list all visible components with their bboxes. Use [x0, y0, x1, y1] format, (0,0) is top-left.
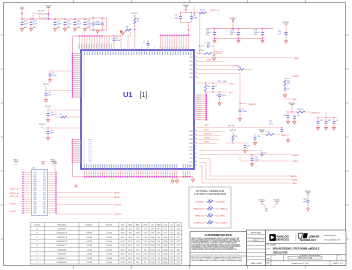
- svg-text:VOUT2_R: VOUT2_R: [214, 51, 224, 53]
- svg-text:VIN: VIN: [43, 195, 46, 197]
- svg-text:VIN: VIN: [43, 179, 46, 181]
- svg-text:OPT: OPT: [208, 217, 211, 219]
- svg-text:2200p: 2200p: [150, 262, 155, 264]
- svg-text:VDD25_R: VDD25_R: [311, 112, 321, 114]
- svg-text:8.06k: 8.06k: [193, 18, 197, 20]
- svg-text:470uF: 470uF: [206, 32, 212, 34]
- svg-text:PGOOD2: PGOOD2: [204, 134, 212, 136]
- svg-text:C14: C14: [247, 145, 250, 147]
- svg-text:VOUT1: VOUT1: [86, 225, 92, 227]
- svg-text:OPT: OPT: [177, 258, 180, 260]
- svg-text:DEVICES: DEVICES: [276, 238, 289, 242]
- svg-text:VOS: VOS: [189, 158, 192, 160]
- svg-text:VOS: VOS: [189, 154, 192, 156]
- svg-text:RUN1: RUN1: [114, 193, 121, 195]
- svg-text:41: 41: [195, 153, 197, 155]
- svg-text:LTM4643EY#B: LTM4643EY#B: [56, 241, 67, 243]
- svg-text:RUN: RUN: [292, 99, 297, 101]
- svg-text:VFB2: VFB2: [293, 161, 299, 163]
- svg-text:35: 35: [195, 138, 197, 140]
- svg-text:E: E: [37, 245, 38, 247]
- svg-text:44: 44: [195, 164, 197, 166]
- svg-text:SIZE: SIZE: [266, 255, 269, 257]
- svg-text:OPT: OPT: [170, 258, 173, 260]
- svg-text:VIN: VIN: [43, 201, 46, 203]
- svg-text:COMP2(1): COMP2(1): [194, 222, 204, 224]
- svg-text:REGULATOR: REGULATOR: [273, 251, 287, 254]
- svg-text:VIN: VIN: [43, 188, 46, 190]
- svg-text:OPT: OPT: [177, 241, 180, 243]
- svg-text:[1]: [1]: [140, 92, 148, 99]
- svg-text:U1 (%): U1 (%): [34, 225, 40, 227]
- svg-text:26: 26: [195, 76, 197, 78]
- svg-text:OPT: OPT: [170, 241, 173, 243]
- svg-text:VOUT1: VOUT1: [114, 205, 122, 207]
- svg-text:PCB DES.: PCB DES.: [247, 236, 253, 238]
- svg-text:LINEAR: LINEAR: [309, 234, 321, 238]
- svg-text:1000p: 1000p: [163, 254, 168, 256]
- svg-text:R13: R13: [328, 120, 331, 122]
- svg-text:R25: R25: [265, 208, 268, 210]
- svg-text:R15: R15: [136, 225, 139, 227]
- svg-text:VFB1: VFB1: [294, 58, 300, 60]
- svg-text:OPT: OPT: [170, 245, 173, 247]
- svg-text:1000p: 1000p: [163, 241, 168, 243]
- svg-text:1000p: 1000p: [150, 241, 155, 243]
- svg-text:COMP2: COMP2: [204, 138, 210, 140]
- svg-text:2200p: 2200p: [150, 249, 155, 251]
- svg-text:VIN: VIN: [43, 181, 46, 183]
- svg-text:RUN2_R: RUN2_R: [281, 135, 289, 137]
- svg-text:C17: C17: [216, 95, 219, 97]
- svg-text:+5VR: +5VR: [204, 125, 209, 127]
- svg-text:TITLE:: TITLE:: [267, 248, 272, 250]
- svg-text:B: B: [37, 233, 38, 235]
- svg-text:34: 34: [195, 134, 197, 136]
- svg-text:R16: R16: [128, 225, 131, 227]
- svg-text:INTVCC: INTVCC: [39, 124, 46, 126]
- svg-text:42: 42: [195, 157, 197, 159]
- svg-text:OPT: OPT: [177, 254, 180, 256]
- svg-text:OPT: OPT: [177, 237, 180, 239]
- svg-text:RUN2: RUN2: [114, 197, 121, 199]
- svg-text:VOS: VOS: [189, 150, 192, 152]
- svg-text:100uF: 100uF: [254, 32, 260, 34]
- svg-text:R20 10: R20 10: [199, 50, 204, 52]
- svg-text:INTVCC: INTVCC: [132, 13, 139, 15]
- svg-text:VIN: VIN: [43, 190, 46, 192]
- svg-text:24: 24: [195, 68, 197, 70]
- svg-text:LTM4643EY#B: LTM4643EY#B: [56, 237, 67, 239]
- svg-text:R11: R11: [207, 86, 210, 88]
- svg-text:VIN: VIN: [43, 213, 46, 215]
- svg-text:VIN: VIN: [43, 206, 46, 208]
- svg-text:5: 5: [84, 162, 85, 164]
- svg-text:C26: C26: [297, 115, 300, 117]
- svg-text:1000p: 1000p: [150, 245, 155, 247]
- svg-text:C1 100p: C1 100p: [205, 43, 211, 45]
- svg-text:100k: 100k: [223, 81, 227, 83]
- svg-text:37: 37: [195, 146, 197, 148]
- svg-text:VFB: VFB: [189, 69, 192, 71]
- svg-text:C11: C11: [320, 120, 323, 122]
- svg-text:OPT: OPT: [265, 211, 268, 213]
- svg-text:TECHNOLOGY: TECHNOLOGY: [300, 240, 317, 242]
- svg-text:R7: R7: [121, 225, 123, 227]
- svg-text:RUN2: RUN2: [204, 142, 209, 144]
- svg-text:OPT: OPT: [208, 203, 211, 205]
- svg-text:C15: C15: [177, 225, 180, 227]
- svg-text:VDD1+_A: VDD1+_A: [10, 187, 20, 190]
- svg-text:C12: C12: [163, 225, 166, 227]
- svg-text:F: F: [37, 249, 38, 251]
- svg-text:22: 22: [195, 60, 197, 62]
- svg-text:(1) COMP1: (1) COMP1: [217, 222, 228, 224]
- svg-text:15k: 15k: [287, 83, 290, 85]
- svg-text:100uF: 100uF: [230, 32, 236, 34]
- svg-text:LTM4643EY 1: LTM4643EY 1: [57, 245, 67, 247]
- svg-text:25: 25: [195, 72, 197, 74]
- svg-text:43: 43: [195, 161, 197, 163]
- svg-text:+5VR: +5VR: [229, 83, 234, 85]
- svg-text:VFB: VFB: [189, 61, 192, 63]
- svg-text:+5VR: +5VR: [206, 59, 211, 61]
- svg-text:(1) VFB1: (1) VFB1: [217, 215, 226, 217]
- svg-text:COMP1: COMP1: [292, 76, 300, 78]
- svg-text:VOSN1: VOSN1: [292, 155, 300, 157]
- svg-text:R28: R28: [209, 221, 212, 223]
- svg-text:22p: 22p: [177, 233, 180, 235]
- svg-text:C25: C25: [283, 115, 286, 117]
- svg-text:1000p: 1000p: [163, 245, 168, 247]
- svg-text:OPT: OPT: [170, 237, 173, 239]
- svg-text:VIN: VIN: [43, 208, 46, 210]
- svg-text:R15 OPT: R15 OPT: [228, 125, 235, 127]
- svg-text:47p: 47p: [170, 233, 173, 235]
- svg-text:R22 10: R22 10: [298, 109, 304, 111]
- svg-text:VFB: VFB: [189, 65, 192, 67]
- svg-text:48p: 48p: [177, 249, 180, 251]
- svg-text:REV: REV: [338, 255, 341, 257]
- svg-text:RUN2(1): RUN2(1): [195, 201, 204, 203]
- svg-text:R18: R18: [157, 225, 160, 227]
- svg-text:VFB1: VFB1: [292, 183, 298, 185]
- svg-text:VIN: VIN: [43, 177, 46, 179]
- svg-text:2200p: 2200p: [163, 249, 168, 251]
- svg-text:40: 40: [195, 149, 197, 151]
- svg-text:R6: R6: [126, 26, 128, 28]
- svg-text:VIN: VIN: [43, 199, 46, 201]
- svg-text:VOS: VOS: [189, 166, 192, 168]
- svg-text:VIN: VIN: [43, 210, 46, 212]
- svg-text:R12: R12: [218, 81, 221, 83]
- svg-text:VIN: VIN: [43, 183, 46, 185]
- svg-text:3: 3: [84, 97, 85, 99]
- svg-text:OPT: OPT: [170, 262, 173, 264]
- svg-text:36: 36: [195, 142, 197, 144]
- svg-text:LTM4643EY: LTM4643EY: [57, 254, 67, 256]
- svg-text:R5: R5: [60, 114, 62, 116]
- svg-text:VOUT1_R: VOUT1_R: [210, 10, 220, 12]
- svg-text:R27: R27: [209, 214, 212, 216]
- svg-text:VIN: VIN: [43, 172, 46, 174]
- svg-text:VFB2 (1): VFB2 (1): [195, 215, 204, 217]
- svg-text:VDDO_A: VDDO_A: [10, 195, 19, 198]
- svg-text:(1) RUN1: (1) RUN1: [217, 201, 227, 203]
- svg-text:2200p: 2200p: [163, 262, 168, 264]
- svg-text:VIN: VIN: [43, 192, 46, 194]
- svg-text:VFB: VFB: [189, 73, 192, 75]
- svg-text:VIN: VIN: [43, 197, 46, 199]
- svg-text:VOUT2: VOUT2: [10, 211, 18, 213]
- svg-text:C9: C9: [287, 89, 289, 91]
- svg-text:+5VR: +5VR: [204, 130, 209, 132]
- svg-text:INTVCC: INTVCC: [230, 130, 237, 132]
- svg-text:Tuesday, June 27, 2017: Tuesday, June 27, 2017: [291, 263, 309, 265]
- svg-text:23: 23: [195, 64, 197, 66]
- svg-text:LTM4643EY 1: LTM4643EY 1: [57, 258, 67, 260]
- svg-text:1 OUTPUT CONFIGURATION: 1 OUTPUT CONFIGURATION: [194, 193, 227, 196]
- svg-text:22p: 22p: [177, 228, 180, 230]
- svg-text:TRACK2(1): TRACK2(1): [193, 207, 204, 210]
- svg-text:R24: R24: [209, 200, 212, 202]
- svg-text:2k: 2k: [137, 21, 139, 23]
- svg-text:1000p: 1000p: [150, 254, 155, 256]
- svg-text:SHEET 1 OF 1: SHEET 1 OF 1: [333, 263, 343, 265]
- svg-text:INTVCC: INTVCC: [45, 106, 52, 108]
- svg-text:VIN: VIN: [43, 174, 46, 176]
- svg-text:OPT: OPT: [151, 233, 154, 235]
- svg-text:47p: 47p: [170, 249, 173, 251]
- svg-text:LTM4643EY: LTM4643EY: [57, 228, 67, 230]
- svg-text:VFB: VFB: [189, 57, 192, 59]
- svg-text:Phone: (408)432-1900: Phone: (408)432-1900: [324, 239, 340, 241]
- svg-text:GND: GND: [212, 55, 215, 57]
- svg-text:33: 33: [195, 130, 197, 132]
- svg-text:OPT: OPT: [177, 262, 180, 264]
- svg-text:R14: R14: [267, 131, 270, 133]
- svg-text:1000p: 1000p: [163, 237, 168, 239]
- svg-text:VDD2+_A: VDD2+_A: [10, 192, 20, 195]
- svg-text:OPT: OPT: [170, 254, 173, 256]
- svg-text:OPT: OPT: [208, 224, 211, 226]
- svg-text:OPT: OPT: [164, 233, 167, 235]
- svg-text:R4 OPT: R4 OPT: [38, 11, 44, 13]
- svg-text:VOUT2: VOUT2: [114, 214, 122, 216]
- svg-text:IC NO.: IC NO.: [272, 255, 276, 257]
- svg-text:C9: C9: [215, 86, 217, 88]
- svg-text:TRACK1: TRACK1: [248, 103, 257, 106]
- svg-text:R23: R23: [209, 207, 212, 209]
- svg-text:VOUT1: VOUT1: [10, 203, 18, 205]
- svg-text:VIN: VIN: [43, 186, 46, 188]
- svg-text:47p: 47p: [170, 228, 173, 230]
- svg-text:U1: U1: [123, 90, 133, 99]
- svg-text:VOUT2: VOUT2: [106, 225, 112, 227]
- svg-text:HIGH EFFICIENCY, STEP-DOWN, µM: HIGH EFFICIENCY, STEP-DOWN, µMODULE: [273, 249, 320, 251]
- svg-text:VIN: VIN: [43, 204, 46, 206]
- svg-text:C23: C23: [257, 136, 260, 138]
- svg-text:1000p: 1000p: [163, 258, 168, 260]
- svg-text:(1) TRACK1: (1) TRACK1: [217, 207, 229, 210]
- svg-text:C12: C12: [264, 152, 267, 154]
- svg-text:R3: R3: [235, 136, 237, 138]
- svg-text:C8: C8: [336, 120, 338, 122]
- svg-text:R10: R10: [144, 225, 147, 227]
- svg-text:R19 10: R19 10: [200, 10, 205, 12]
- svg-text:CUSTOMER NOTICE: CUSTOMER NOTICE: [205, 233, 232, 237]
- svg-text:C7: C7: [170, 225, 172, 227]
- svg-text:VFB: VFB: [189, 77, 192, 79]
- svg-text:VOSN2: VOSN2: [291, 180, 299, 182]
- svg-text:www.analog.com: www.analog.com: [324, 235, 337, 237]
- svg-text:OPT: OPT: [144, 233, 147, 235]
- svg-text:21: 21: [195, 56, 197, 58]
- svg-text:OPT: OPT: [177, 245, 180, 247]
- svg-text:VOS: VOS: [189, 162, 192, 164]
- svg-text:APPROVALS: APPROVALS: [251, 231, 262, 234]
- svg-text:OPT: OPT: [164, 228, 167, 230]
- svg-text:OPT: OPT: [157, 233, 160, 235]
- svg-text:OPT: OPT: [157, 228, 160, 230]
- svg-text:1000p: 1000p: [150, 237, 155, 239]
- svg-text:C5: C5: [151, 225, 153, 227]
- svg-text:OPT: OPT: [151, 228, 154, 230]
- svg-text:C1: C1: [143, 42, 145, 44]
- svg-text:INTVCC: INTVCC: [43, 84, 50, 86]
- svg-text:OPT: OPT: [208, 210, 211, 212]
- svg-text:OPT: OPT: [144, 228, 147, 230]
- svg-text:TRACK2: TRACK2: [289, 175, 298, 178]
- svg-text:R16: R16: [238, 67, 241, 69]
- svg-text:MODULE: MODULE: [58, 225, 67, 227]
